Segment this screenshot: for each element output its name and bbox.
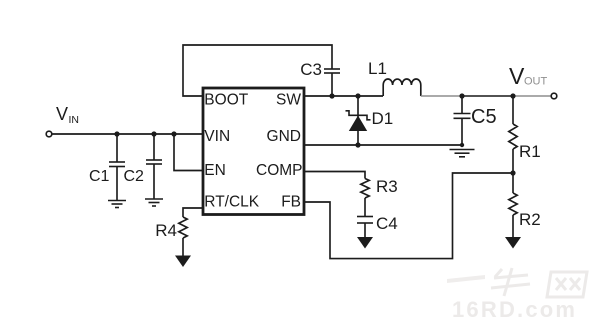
svg-text:C5: C5 — [471, 106, 497, 128]
label VOUT — [509, 63, 548, 89]
node C5 top junction — [459, 93, 464, 98]
svg-text:BOOT: BOOT — [204, 92, 248, 109]
capacitor C4 — [357, 217, 373, 238]
svg-text:R4: R4 — [155, 221, 177, 240]
wire SW rail — [304, 95, 383, 97]
ground arrow under R4 — [175, 256, 191, 268]
capacitor C2 — [146, 134, 162, 199]
svg-text:L1: L1 — [368, 59, 387, 78]
ground arrow under R2 — [505, 237, 521, 249]
wire C3 to SW node — [331, 73, 333, 96]
resistor R3 — [361, 179, 369, 217]
svg-text:FB: FB — [281, 194, 301, 211]
wire VIN rail — [52, 133, 203, 135]
node VOUT terminal — [551, 93, 557, 99]
op-amp U1 regulator box — [203, 88, 304, 215]
resistor R2 — [509, 173, 517, 237]
node VIN terminal — [46, 131, 52, 137]
svg-text:C1: C1 — [89, 168, 110, 185]
capacitor C3 — [324, 69, 340, 73]
svg-text:R1: R1 — [519, 142, 541, 161]
resistor R4 — [179, 217, 187, 256]
node D1 top junction — [355, 93, 360, 98]
svg-text:GND: GND — [267, 128, 301, 145]
svg-text:R2: R2 — [519, 210, 541, 229]
inductor L1 — [383, 79, 421, 96]
svg-text:16RD.com: 16RD.com — [452, 297, 577, 321]
svg-text:VIN: VIN — [204, 128, 230, 145]
watermark 一 — [447, 275, 485, 283]
svg-text:IN: IN — [69, 114, 80, 126]
node VOUT junction — [510, 93, 515, 98]
svg-text:V: V — [56, 104, 68, 124]
node GND rail end junction — [460, 143, 464, 147]
ground arrow under C4 — [357, 237, 373, 249]
svg-text:C3: C3 — [300, 60, 322, 79]
label VIN — [56, 104, 79, 126]
node C2 junction — [151, 131, 156, 136]
svg-text:EN: EN — [204, 162, 226, 179]
wire COMP branch — [304, 172, 365, 179]
node D1 bottom junction — [355, 142, 360, 147]
diode D1 (schottky) — [346, 96, 371, 145]
wire FB feedback path — [304, 173, 513, 259]
wire BOOT loop — [183, 45, 332, 96]
capacitor C5 — [454, 96, 471, 145]
svg-text:D1: D1 — [372, 109, 394, 128]
svg-text:V: V — [509, 63, 525, 89]
node C3/SW junction — [329, 93, 334, 98]
capacitor C1 — [109, 134, 125, 200]
node C1 junction — [114, 131, 119, 136]
wire EN branch — [174, 134, 203, 171]
svg-text:C4: C4 — [376, 214, 398, 233]
svg-text:SW: SW — [276, 92, 301, 109]
wire L1 to C5 (faded by watermark) — [421, 95, 462, 97]
watermark 网 — [547, 272, 587, 297]
ground under C2 — [145, 199, 163, 206]
node FB divider junction — [510, 170, 515, 175]
svg-text:OUT: OUT — [524, 76, 548, 88]
node EN junction — [171, 131, 176, 136]
wire VOUT node to terminal (faded) — [513, 95, 551, 97]
ground at GND rail — [450, 150, 475, 157]
svg-text:R3: R3 — [376, 177, 398, 196]
svg-text:RT/CLK: RT/CLK — [204, 194, 260, 211]
svg-text:C2: C2 — [124, 168, 145, 185]
watermark 牛 — [491, 268, 530, 296]
wire RT/CLK branch — [183, 208, 203, 217]
wire GND rail — [304, 144, 462, 146]
wire C5 to VOUT node — [462, 95, 513, 97]
ground under C1 — [108, 201, 126, 208]
svg-text:COMP: COMP — [256, 162, 303, 179]
resistor R1 — [509, 96, 517, 173]
